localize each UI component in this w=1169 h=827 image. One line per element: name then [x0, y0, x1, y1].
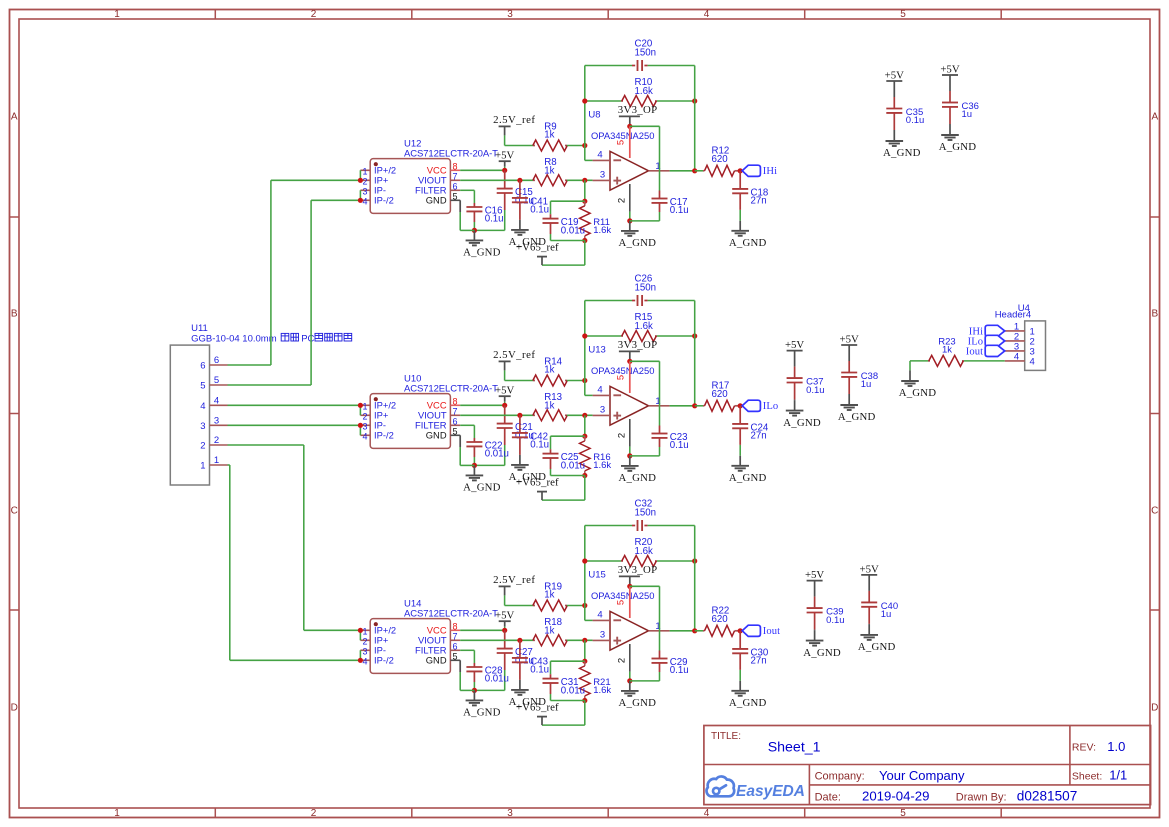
- svg-text:Sheet:: Sheet:: [1072, 771, 1102, 783]
- svg-text:Iout: Iout: [763, 626, 780, 637]
- svg-text:3: 3: [362, 187, 367, 197]
- svg-text:27n: 27n: [751, 431, 767, 442]
- svg-text:2: 2: [311, 9, 317, 20]
- svg-text:0.1u: 0.1u: [806, 385, 825, 396]
- svg-text:0.01u: 0.01u: [485, 674, 509, 685]
- svg-text:3V3_OP: 3V3_OP: [618, 104, 658, 116]
- svg-text:5: 5: [452, 652, 457, 662]
- svg-text:+V65_ref: +V65_ref: [516, 241, 559, 253]
- svg-text:2: 2: [362, 177, 367, 187]
- svg-text:1u: 1u: [861, 379, 872, 390]
- svg-text:4: 4: [704, 9, 710, 20]
- svg-text:3: 3: [600, 405, 605, 416]
- svg-text:1/1: 1/1: [1109, 768, 1127, 783]
- svg-text:8: 8: [452, 162, 457, 172]
- svg-text:A_GND: A_GND: [729, 237, 767, 249]
- svg-text:3: 3: [214, 415, 219, 426]
- svg-text:3: 3: [507, 808, 513, 819]
- svg-text:+5V: +5V: [785, 339, 804, 351]
- svg-text:A_GND: A_GND: [619, 237, 657, 249]
- svg-text:+5V: +5V: [885, 70, 904, 82]
- svg-text:620: 620: [712, 154, 729, 165]
- svg-text:1k: 1k: [544, 165, 554, 176]
- svg-text:U11: U11: [191, 323, 208, 334]
- svg-text:4: 4: [1014, 352, 1019, 363]
- svg-text:A_GND: A_GND: [783, 417, 821, 429]
- svg-text:3: 3: [600, 630, 605, 641]
- svg-text:1.6k: 1.6k: [635, 546, 653, 557]
- svg-text:3: 3: [362, 647, 367, 657]
- svg-text:2.5V_ref: 2.5V_ref: [493, 574, 535, 586]
- svg-text:B: B: [11, 308, 18, 319]
- svg-text:A_GND: A_GND: [619, 697, 657, 709]
- svg-text:6: 6: [452, 182, 457, 192]
- svg-text:A_GND: A_GND: [899, 387, 937, 399]
- svg-text:0.1u: 0.1u: [670, 440, 689, 451]
- svg-text:0.1u: 0.1u: [670, 205, 689, 216]
- svg-text:27n: 27n: [751, 196, 767, 207]
- svg-text:5: 5: [900, 9, 906, 20]
- svg-text:1: 1: [114, 9, 120, 20]
- svg-text:3V3_OP: 3V3_OP: [618, 339, 658, 351]
- svg-text:4: 4: [362, 657, 367, 667]
- svg-text:+5V: +5V: [840, 334, 859, 346]
- svg-text:7: 7: [452, 172, 457, 182]
- svg-text:EasyEDA: EasyEDA: [736, 783, 805, 800]
- svg-text:A: A: [1151, 111, 1158, 122]
- svg-text:5: 5: [616, 375, 627, 380]
- svg-text:3: 3: [200, 421, 205, 432]
- svg-text:1k: 1k: [544, 625, 554, 636]
- svg-text:5: 5: [900, 808, 906, 819]
- svg-text:0.01u: 0.01u: [485, 449, 509, 460]
- svg-text:2: 2: [617, 198, 628, 203]
- svg-text:Company:: Company:: [815, 770, 865, 782]
- svg-text:REV:: REV:: [1072, 742, 1096, 754]
- svg-text:U8: U8: [588, 110, 600, 121]
- svg-text:PC: PC: [301, 334, 314, 345]
- svg-text:C: C: [11, 505, 18, 516]
- svg-text:5: 5: [616, 140, 627, 145]
- svg-text:0.1u: 0.1u: [485, 214, 504, 225]
- svg-text:6: 6: [452, 417, 457, 427]
- svg-text:Date:: Date:: [815, 791, 841, 803]
- svg-text:A_GND: A_GND: [858, 641, 896, 653]
- svg-text:GND: GND: [426, 195, 447, 206]
- svg-text:0.01u: 0.01u: [561, 225, 585, 236]
- svg-text:1.6k: 1.6k: [635, 86, 653, 97]
- svg-text:6: 6: [214, 355, 219, 366]
- svg-text:2: 2: [362, 637, 367, 647]
- svg-text:d0281507: d0281507: [1017, 789, 1077, 804]
- svg-text:OPA345NA250: OPA345NA250: [591, 130, 654, 141]
- svg-text:1k: 1k: [544, 400, 554, 411]
- svg-text:1k: 1k: [544, 129, 554, 140]
- svg-text:2: 2: [200, 441, 205, 452]
- svg-text:1: 1: [200, 461, 205, 472]
- svg-text:8: 8: [452, 622, 457, 632]
- svg-text:620: 620: [712, 389, 729, 400]
- svg-text:ACS712ELCTR-20A-T: ACS712ELCTR-20A-T: [404, 384, 498, 395]
- svg-text:IP-/2: IP-/2: [374, 655, 394, 666]
- svg-text:4: 4: [214, 395, 219, 406]
- svg-text:4: 4: [597, 385, 602, 396]
- svg-text:4: 4: [597, 610, 602, 621]
- svg-text:TITLE:: TITLE:: [711, 731, 741, 742]
- svg-text:0.01u: 0.01u: [561, 685, 585, 696]
- svg-text:1: 1: [362, 627, 367, 637]
- svg-text:0.1u: 0.1u: [906, 115, 925, 126]
- svg-text:+5V: +5V: [805, 569, 824, 581]
- svg-text:+5V: +5V: [495, 150, 514, 162]
- svg-text:IHi: IHi: [763, 166, 777, 177]
- svg-text:A_GND: A_GND: [729, 472, 767, 484]
- svg-text:0.1u: 0.1u: [530, 440, 549, 451]
- svg-text:ILo: ILo: [763, 401, 779, 412]
- svg-text:2: 2: [617, 433, 628, 438]
- svg-text:1.6k: 1.6k: [635, 321, 653, 332]
- svg-text:2: 2: [362, 412, 367, 422]
- svg-text:A_GND: A_GND: [619, 472, 657, 484]
- svg-text:+5V: +5V: [495, 610, 514, 622]
- svg-text:+5V: +5V: [495, 385, 514, 397]
- svg-text:+5V: +5V: [860, 563, 879, 575]
- svg-text:4: 4: [362, 197, 367, 207]
- svg-text:1k: 1k: [544, 589, 554, 600]
- svg-text:A_GND: A_GND: [803, 647, 841, 659]
- svg-text:3: 3: [600, 170, 605, 181]
- svg-text:A_GND: A_GND: [463, 482, 501, 494]
- svg-text:+V65_ref: +V65_ref: [516, 701, 559, 713]
- svg-text:A_GND: A_GND: [939, 141, 977, 153]
- svg-text:1.6k: 1.6k: [593, 460, 611, 471]
- svg-text:2.5V_ref: 2.5V_ref: [493, 114, 535, 126]
- svg-text:OPA345NA250: OPA345NA250: [591, 365, 654, 376]
- svg-text:2019-04-29: 2019-04-29: [862, 789, 929, 804]
- svg-text:4: 4: [362, 432, 367, 442]
- svg-text:OPA345NA250: OPA345NA250: [591, 590, 654, 601]
- svg-text:GND: GND: [426, 655, 447, 666]
- svg-text:D: D: [11, 702, 18, 713]
- svg-text:GND: GND: [426, 430, 447, 441]
- svg-text:27n: 27n: [751, 656, 767, 667]
- svg-text:GGB-10-04 10.0mm: GGB-10-04 10.0mm: [191, 334, 277, 345]
- svg-text:A_GND: A_GND: [463, 707, 501, 719]
- svg-text:Your Company: Your Company: [879, 768, 965, 783]
- svg-text:2: 2: [311, 808, 317, 819]
- svg-text:A: A: [11, 111, 18, 122]
- svg-text:150n: 150n: [635, 507, 657, 518]
- svg-text:1: 1: [114, 808, 120, 819]
- svg-text:2: 2: [617, 658, 628, 663]
- svg-text:4: 4: [1030, 356, 1035, 367]
- svg-text:0.1u: 0.1u: [530, 665, 549, 676]
- svg-text:Sheet_1: Sheet_1: [768, 739, 821, 755]
- svg-text:4: 4: [200, 401, 205, 412]
- svg-text:A_GND: A_GND: [463, 247, 501, 259]
- svg-text:U13: U13: [588, 345, 605, 356]
- svg-text:B: B: [1151, 308, 1158, 319]
- svg-text:620: 620: [712, 614, 729, 625]
- svg-text:6: 6: [200, 361, 205, 372]
- svg-text:2: 2: [214, 435, 219, 446]
- svg-text:5: 5: [452, 427, 457, 437]
- svg-text:5: 5: [452, 192, 457, 202]
- svg-text:1: 1: [214, 455, 219, 466]
- svg-text:5: 5: [616, 600, 627, 605]
- svg-text:D: D: [1151, 702, 1158, 713]
- svg-text:1u: 1u: [881, 609, 892, 620]
- svg-text:3: 3: [507, 9, 513, 20]
- svg-text:C: C: [1151, 505, 1158, 516]
- svg-text:A_GND: A_GND: [729, 697, 767, 709]
- svg-text:IP-/2: IP-/2: [374, 430, 394, 441]
- svg-text:5: 5: [200, 381, 205, 392]
- svg-text:A_GND: A_GND: [838, 411, 876, 423]
- svg-text:1: 1: [362, 402, 367, 412]
- svg-text:3V3_OP: 3V3_OP: [618, 564, 658, 576]
- svg-text:1.6k: 1.6k: [593, 685, 611, 696]
- svg-text:U15: U15: [588, 570, 605, 581]
- svg-text:+5V: +5V: [940, 64, 959, 76]
- svg-text:ACS712ELCTR-20A-T: ACS712ELCTR-20A-T: [404, 149, 498, 160]
- svg-text:1.0: 1.0: [1107, 739, 1125, 754]
- svg-text:0.01u: 0.01u: [561, 460, 585, 471]
- svg-text:0.1u: 0.1u: [826, 615, 845, 626]
- svg-text:1u: 1u: [962, 109, 973, 120]
- svg-text:A_GND: A_GND: [883, 147, 921, 159]
- svg-text:ACS712ELCTR-20A-T: ACS712ELCTR-20A-T: [404, 609, 498, 620]
- svg-text:+V65_ref: +V65_ref: [516, 476, 559, 488]
- svg-text:1: 1: [362, 167, 367, 177]
- svg-text:4: 4: [597, 150, 602, 161]
- svg-text:2.5V_ref: 2.5V_ref: [493, 349, 535, 361]
- svg-text:7: 7: [452, 407, 457, 417]
- svg-text:1.6k: 1.6k: [593, 225, 611, 236]
- svg-text:150n: 150n: [635, 47, 657, 58]
- svg-text:8: 8: [452, 397, 457, 407]
- svg-text:4: 4: [704, 808, 710, 819]
- svg-text:IP-/2: IP-/2: [374, 195, 394, 206]
- svg-text:Drawn By:: Drawn By:: [956, 792, 1007, 804]
- svg-text:150n: 150n: [635, 282, 657, 293]
- svg-text:0.1u: 0.1u: [670, 665, 689, 676]
- svg-text:3: 3: [362, 422, 367, 432]
- svg-text:Header4: Header4: [995, 310, 1031, 321]
- svg-text:0.1u: 0.1u: [530, 205, 549, 216]
- svg-text:1k: 1k: [544, 364, 554, 375]
- svg-text:1k: 1k: [942, 345, 952, 356]
- svg-text:Iout: Iout: [966, 346, 983, 357]
- svg-text:5: 5: [214, 375, 219, 386]
- svg-text:6: 6: [452, 642, 457, 652]
- svg-text:7: 7: [452, 632, 457, 642]
